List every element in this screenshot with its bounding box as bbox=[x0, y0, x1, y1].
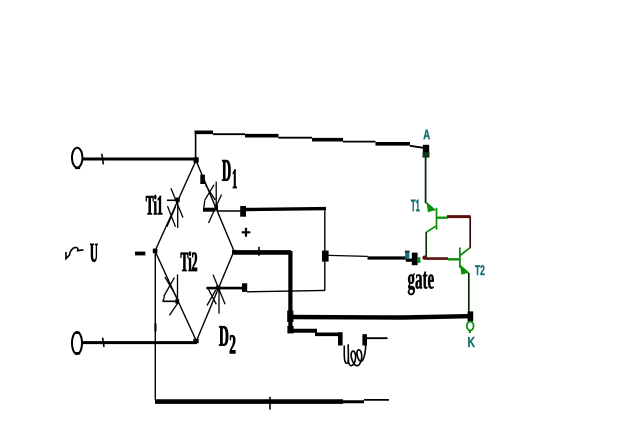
teal glyph near gate terminal bbox=[405, 251, 410, 253]
label T2 bbox=[475, 265, 485, 275]
wire top rail to A (stepped hand-drawn) bbox=[195, 132, 427, 148]
wire to K terminal bbox=[290, 316, 468, 317]
transistor T2 (NPN, green) bbox=[460, 248, 470, 313]
node bridge right bbox=[232, 250, 237, 255]
plus sign bbox=[242, 228, 251, 237]
K terminal circle (green) bbox=[467, 322, 474, 331]
loop junction square bbox=[322, 251, 329, 262]
vertical wire down from plus bbox=[288, 251, 292, 331]
load left stub bbox=[338, 332, 343, 345]
loop rectangle top side (thick, D1 output) bbox=[246, 207, 326, 211]
D1 output square bbox=[240, 206, 246, 217]
wire A to T1 emitter bbox=[425, 157, 427, 204]
terminal top-left bbox=[72, 148, 82, 168]
green pixels right of gate block bbox=[418, 257, 421, 263]
block on D1 arm bbox=[200, 175, 205, 184]
label T1 bbox=[411, 200, 420, 212]
K tick below circle bbox=[469, 330, 471, 333]
label A bbox=[423, 130, 429, 140]
gate junction dot (maroon) bbox=[422, 256, 426, 260]
bridge edge top-right (D1 arm) bbox=[196, 161, 234, 252]
tick on top-left wire bbox=[102, 154, 104, 165]
gate terminal step bbox=[406, 259, 412, 262]
label D1 bbox=[222, 160, 230, 181]
node bridge top bbox=[194, 157, 199, 162]
label K bbox=[468, 337, 475, 347]
node bridge bottom bbox=[193, 339, 198, 343]
tick on bottom-left wire bbox=[103, 338, 104, 347]
K terminal block bbox=[468, 311, 474, 321]
wire bottom-left terminal to bridge bottom node bbox=[81, 341, 197, 344]
load branch wire lower step bbox=[315, 332, 339, 336]
tick on bottom wire bbox=[269, 397, 271, 410]
wire bridge top stub bbox=[195, 131, 197, 158]
label Ti2 bbox=[181, 252, 197, 271]
gate terminal block bbox=[412, 253, 418, 266]
label gate bbox=[408, 272, 434, 296]
bridge edge top-left (Ti1 arm) bbox=[155, 161, 196, 252]
tick on plus wire bbox=[258, 247, 260, 256]
corner block at plus-rail/K-wire junction bbox=[287, 311, 293, 322]
label U bbox=[90, 244, 97, 262]
AC source squiggle bbox=[66, 247, 84, 258]
thyristor Ti2 symbol bbox=[162, 274, 178, 315]
label D2 bbox=[219, 326, 228, 345]
gate wire maroon to T2 base bbox=[426, 257, 448, 260]
terminal pad A bbox=[423, 145, 429, 155]
loop rectangle bottom side bbox=[247, 290, 325, 291]
plus output wire bbox=[235, 250, 291, 255]
gate wire green segment at T2 base bbox=[448, 258, 460, 260]
minus sign bbox=[135, 252, 145, 256]
blob on minus rail bbox=[154, 324, 156, 332]
wire top-left terminal to bridge top node bbox=[82, 158, 197, 161]
bridge edge bottom-left (Ti2 arm) bbox=[155, 251, 196, 341]
load branch wire upper bbox=[289, 329, 317, 333]
bridge edge bottom-right (D2 arm) bbox=[196, 251, 234, 341]
bottom long wire bbox=[155, 399, 343, 404]
corner block at plus-rail/load junction bbox=[287, 326, 293, 334]
D1 output thin wire bbox=[218, 210, 241, 212]
terminal bottom-left bbox=[72, 332, 82, 354]
diode D2 symbol bbox=[206, 275, 242, 314]
loop left square (D2 tap) bbox=[242, 283, 247, 292]
gate lead-in wire (thin then thick) bbox=[328, 255, 368, 256]
diode D1 symbol bbox=[203, 182, 222, 223]
transistor T1 (PNP, green) bbox=[426, 202, 448, 258]
thyristor Ti1 symbol bbox=[167, 188, 183, 228]
loop rectangle right side bbox=[324, 210, 326, 290]
label Ti1 bbox=[146, 195, 162, 214]
wire T1 base to T2 collector (maroon) bbox=[447, 215, 471, 218]
vertical rail from bridge left node to bottom wire bbox=[154, 252, 156, 400]
load right stub bbox=[362, 334, 367, 345]
load coil squiggle bbox=[344, 344, 348, 363]
node bridge left bbox=[153, 249, 158, 254]
load tap thin wire bbox=[367, 337, 388, 339]
